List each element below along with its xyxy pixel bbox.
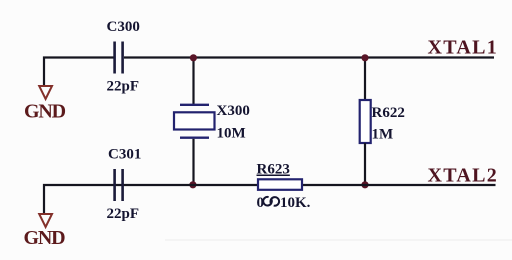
- wire: R622 bottom stub: [364, 143, 366, 185]
- wire: XTAL2 bottom rail, R623 to right end: [302, 184, 496, 186]
- svg-text:XTAL1: XTAL1: [428, 37, 499, 59]
- svg-text:10K.: 10K.: [280, 195, 311, 211]
- svg-text:R622: R622: [372, 105, 405, 121]
- net label XTAL2: [428, 165, 499, 187]
- node: junction dot bottom-left (crystal / XTAL2): [189, 181, 196, 188]
- svg-text:XTAL2: XTAL2: [428, 165, 499, 187]
- capacitor C301: [107, 147, 142, 223]
- svg-text:10M: 10M: [217, 126, 246, 142]
- svg-text:GND: GND: [24, 101, 66, 123]
- crystal X300: [174, 103, 250, 142]
- net label XTAL1: [428, 37, 499, 59]
- wire: crystal top stub: [192, 58, 194, 105]
- wire: crystal bottom stub: [192, 139, 194, 185]
- ground (bottom GND symbol): [24, 214, 66, 249]
- ground (top GND symbol): [24, 86, 66, 123]
- wire: faint artifact line bottom: [165, 239, 512, 241]
- node: junction dot top-right (R622 / XTAL1): [361, 54, 368, 61]
- node: junction dot top-left (crystal / XTAL1): [190, 54, 197, 61]
- wire: XTAL2 bottom rail, corner to R623: [44, 185, 258, 213]
- svg-text:GND: GND: [24, 227, 66, 249]
- svg-text:X300: X300: [217, 103, 250, 119]
- svg-text:1M: 1M: [372, 127, 394, 143]
- svg-text:22pF: 22pF: [107, 206, 140, 222]
- resistor R622: [360, 100, 405, 143]
- wire: XTAL1 top rail, corner to C300 left plate: [44, 58, 114, 86]
- svg-text:R623: R623: [257, 162, 290, 178]
- capacitor C300: [107, 19, 140, 95]
- node: junction dot bottom-right (R622 / XTAL2): [361, 181, 368, 188]
- svg-text:22pF: 22pF: [107, 79, 140, 95]
- wire: R622 top stub: [364, 58, 366, 101]
- wire: XTAL1 top rail, C300 right plate to right end: [124, 56, 494, 58]
- svg-text:C300: C300: [107, 19, 140, 35]
- svg-text:C301: C301: [108, 147, 141, 163]
- resistor R623: [257, 162, 311, 212]
